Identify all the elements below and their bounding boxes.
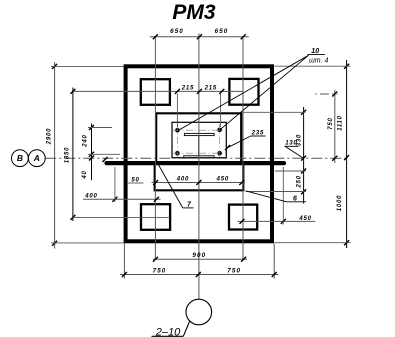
leader to bolt top-right (220, 55, 309, 129)
anchor bolt rectangle (thin) (172, 122, 226, 157)
column web line (198, 136, 200, 156)
extension line through left squares (154, 37, 156, 260)
leader 2-10 (152, 335, 184, 337)
dash-dot stub square axis right (316, 93, 338, 95)
svg-text:240: 240 (83, 134, 89, 147)
svg-text:10: 10 (311, 48, 319, 55)
svg-text:650: 650 (215, 28, 229, 35)
svg-text:750: 750 (227, 267, 241, 274)
svg-text:2–10: 2–10 (155, 326, 181, 337)
extension below right foundation edge (273, 244, 275, 279)
svg-text:215: 215 (181, 85, 194, 91)
extension bolt left (176, 94, 178, 128)
anchor plate square top-left (141, 79, 170, 105)
anchor plate square bottom-right (229, 205, 257, 230)
left outer chain 2900 (54, 62, 56, 249)
foundation outer rectangle (thick) (126, 66, 272, 241)
svg-text:215: 215 (204, 85, 217, 91)
column base plate bar top (184, 133, 214, 135)
svg-text:40: 40 (82, 170, 88, 179)
svg-text:50: 50 (131, 177, 139, 183)
svg-text:РМ3: РМ3 (172, 1, 216, 24)
thick beam band on axis (107, 161, 285, 165)
svg-text:450: 450 (298, 216, 311, 222)
extension bottom-right corner (275, 242, 351, 244)
extension bottom squares row (73, 216, 170, 218)
right mid chain 330/130/250 (303, 107, 305, 204)
extension below left foundation edge (123, 244, 125, 279)
extension from band right end down (282, 167, 284, 225)
svg-text:400: 400 (176, 177, 189, 183)
left inner chain 240/40 (91, 124, 93, 181)
dim 400 right of band (238, 220, 316, 222)
svg-text:А: А (33, 153, 40, 163)
lower step rectangle (155, 165, 244, 191)
extension line through right squares (242, 37, 244, 260)
anchor bolt dots (175, 128, 180, 133)
svg-text:450: 450 (216, 177, 229, 183)
svg-text:130: 130 (285, 141, 297, 147)
bolt axis vertical right (219, 124, 221, 159)
svg-text:шт. 4: шт. 4 (309, 58, 328, 65)
extension top-left corner (51, 65, 124, 67)
stub at 240 bottom (88, 153, 120, 155)
dim line 900 (153, 258, 247, 260)
extension top-right corner (275, 65, 351, 67)
extension step bottom right (246, 191, 306, 193)
dim line in lower rectangle (152, 182, 246, 184)
svg-text:В: В (17, 153, 23, 163)
extension bolt right (220, 94, 222, 128)
axis circle B (12, 150, 29, 167)
left black chain 1850 (72, 88, 74, 222)
small tick at band left end on axis (103, 157, 108, 162)
right inner chain 750 (334, 90, 336, 163)
svg-text:400: 400 (84, 193, 97, 199)
bolt dim line row (73, 90, 244, 92)
extension step mid right (275, 170, 306, 172)
anchor plate square top-right (229, 79, 258, 105)
dim line 750+750 (120, 274, 278, 276)
svg-text:1110: 1110 (337, 115, 343, 131)
dim 400 left of band (83, 198, 161, 200)
svg-text:1000: 1000 (337, 195, 343, 212)
svg-text:750: 750 (153, 267, 167, 274)
bolt axis horizontal bottom (173, 152, 226, 154)
svg-text:2900: 2900 (47, 128, 53, 146)
leader to bolt top-left (179, 55, 309, 130)
svg-text:900: 900 (192, 252, 206, 259)
pedestal inner rectangle (156, 113, 241, 162)
bolt axis vertical left (176, 124, 178, 159)
bolt axis horizontal top (173, 129, 226, 131)
top dimension line (150, 36, 249, 38)
svg-text:1850: 1850 (65, 147, 71, 164)
svg-text:650: 650 (170, 28, 184, 35)
column base plate bar bottom (184, 156, 214, 158)
extension bottom-left corner (51, 242, 124, 244)
anchor plate square bottom-left (141, 204, 170, 230)
svg-text:750: 750 (328, 117, 334, 129)
section circle (186, 299, 212, 325)
vertical main centerline (198, 34, 200, 300)
axis circle A (28, 150, 45, 167)
stub at 240 top (88, 127, 112, 129)
svg-text:250: 250 (297, 175, 303, 188)
horizontal axis A dash-dot (45, 157, 347, 159)
extension from band left end down (114, 167, 116, 202)
extension pedestal top right (243, 111, 306, 113)
right outer chain 1110/1000 (346, 60, 348, 248)
